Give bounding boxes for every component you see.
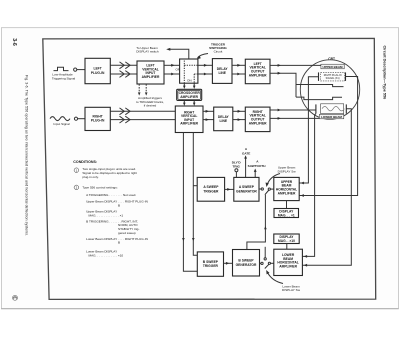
svg-text:DISPLAY Sw: DISPLAY Sw [278,169,297,173]
wire upper-left plate down to upper beam horiz amp [299,77,318,185]
wire right plug-in to right input amp (lower) [110,116,175,123]
wire B sweep generator to lower display switch [260,262,261,264]
page number 3-6 [11,38,17,46]
lower display switch left contact [261,262,263,264]
svg-text:SIGNAL (X1): SIGNAL (X1) [326,77,340,80]
block: RIGHT PLUG-IN [85,107,110,130]
svg-text:PLUG-IN: PLUG-IN [91,71,105,75]
svg-text:AMPLIFIER: AMPLIFIER [249,73,267,77]
svg-text:TRIG: TRIG [233,165,241,169]
setting upper beam display mag [86,210,123,218]
input sine waveform symbol [50,117,70,121]
svg-text:Type 556 control settings:: Type 556 control settings: [82,186,117,190]
svg-text:plug-in only.: plug-in only. [82,175,99,179]
wire A sweep generator to upper display switch contact [259,188,261,190]
wire right input amp down to B sweep trigger (line 2) [192,133,197,256]
wire right plug-in to right input amp (upper) [110,108,175,115]
upper display switch right contact [268,188,270,190]
wire input amp to trigger switch box (upper) [164,64,180,67]
svg-text:B: B [118,203,120,207]
setting upper beam display [86,200,148,208]
trigger pulse waveform symbol [54,67,69,70]
svg-text:MAG. . . ×1: MAG. . . ×1 [278,213,295,217]
svg-text:TRIGGER: TRIGGER [203,264,219,268]
block: DELAY LINE 2 [214,107,233,131]
lower display switch right contact [268,262,270,264]
label lower beam display sw [282,284,301,292]
svg-text:A TRIGGERING . . . . . . . .: A TRIGGERING . . . . . . . . Not used. [86,193,136,197]
wire left plug-in to left input amp (upper) [110,62,137,69]
svg-text:PLUG-IN: PLUG-IN [91,119,105,123]
svg-text:AMPLIFIER: AMPLIFIER [279,264,297,268]
block: CROSSOVER AMPLIFIER [177,89,202,100]
svg-text:AMPLIFIER: AMPLIFIER [249,121,267,125]
wire left plug-in to left input amp (lower) [110,71,137,78]
wire upper switch to upper beam horiz amp [270,188,273,190]
lower beam left deflection plate [315,104,317,113]
svg-text:Input Signal: Input Signal [53,122,70,126]
block: DISPLAY MAG x10 [274,234,299,244]
wire A gate up from A sweep generator [244,155,247,177]
svg-text:DISPLAY Sw: DISPLAY Sw [282,288,301,292]
svg-text:Triggering Signal: Triggering Signal [52,76,76,80]
svg-text:LOWER BEAM: LOWER BEAM [321,115,342,119]
svg-text:Circuit: Circuit [214,50,223,54]
block: A SWEEP TRIGGER [197,177,224,201]
upper beam left deflection plate [318,72,320,81]
svg-text:ON: ON [187,79,192,83]
wire B sweep trigger to B sweep generator [224,262,233,265]
wire switch box to crossover amp (right drop) [193,83,196,89]
svg-text:LINE: LINE [220,119,228,123]
svg-text:GATE: GATE [242,151,250,155]
svg-text:SAWTOOTH: SAWTOOTH [248,164,267,168]
wire input amp to trigger switch box (lower) [164,73,180,76]
terminal jack (left plug-in input) [74,68,77,71]
wire B sweep to upper switch (vertical riser) [247,195,267,250]
wire lower-left plate down to lower beam horiz amp [302,114,316,258]
label DLY'D TRIG jack [232,161,242,169]
wire upper-right plate down to upper beam horiz amp [299,77,357,197]
curved pointer upper display sw to lever [266,174,281,188]
label amplified triggers [136,96,164,107]
block: UPPER BEAM HORIZONTAL AMPLIFIER [274,177,299,200]
note 1 circled number [74,168,79,173]
curved pointer trigger switching to box [196,54,208,60]
block: LEFT VERTICAL OUTPUT AMPLIFIER [245,59,270,83]
svg-text:DISPLAY switch: DISPLAY switch [136,50,159,54]
right margin running head [383,46,387,100]
diagram border frame [43,38,376,299]
jack circle dly'd trig [235,169,238,172]
label A SAWTOOTH output [248,160,267,168]
wire delay line 1 to left output amp (upper) [232,64,245,67]
block: RIGHT VERTICAL OUTPUT AMPLIFIER [245,107,270,132]
svg-text:CONDITIONS:: CONDITIONS: [73,160,97,164]
wire stub to A sweep trigger [193,185,197,187]
svg-text:Upper Beam DISPLAY . . . . RI: Upper Beam DISPLAY . . . . RIGHT PLUG-IN [86,200,148,204]
svg-text:GENERATOR: GENERATOR [236,189,257,193]
block: LEFT PLUG-IN [85,58,110,83]
label UPPER BEAM [321,64,344,69]
CRT envelope circle [300,60,359,119]
svg-text:AMPLIFIER: AMPLIFIER [278,191,296,195]
svg-text:AMPLIFIER: AMPLIFIER [180,122,198,126]
wire delay line 1 to left output amp (lower) [232,73,245,76]
setting lower beam display [86,237,148,245]
upper beam display dashed box [321,72,345,81]
wire lower switch to lower beam horiz amp [271,262,274,264]
svg-text:Circuit Description—Type 556: Circuit Description—Type 556 [383,46,387,100]
wire right output amp to lower-left plate [270,109,316,112]
label LOWER BEAM [319,114,344,119]
wire jack to right plug-in [78,118,85,120]
svg-text:MAG. . . . . . . . . . . . . ×: MAG. . . . . . . . . . . . . ×10 [89,253,124,257]
wire delay line 2 to right output amp (lower) [233,118,246,121]
wire A sweep trigger to A sweep generator [225,188,234,191]
svg-text:UPPER BEAM: UPPER BEAM [322,65,343,69]
note 2 circled number [74,185,79,190]
terminal jack (right plug-in input) [74,117,77,120]
block: LOWER BEAM HORIZONTAL AMPLIFIER [274,249,303,275]
svg-text:if desired: if desired [144,103,157,107]
figure caption left margin [25,75,29,236]
setting B triggering [86,219,139,234]
wire jack to left plug-in [77,69,85,71]
lower beam display box with sine [321,104,345,114]
lower display switch top contact [264,258,266,260]
wire delay line 2 to right output amp (upper) [233,110,246,113]
svg-text:TRIGGER: TRIGGER [203,189,219,193]
wire right input amp down to B sweep trigger (line 1) [182,133,197,272]
wire switch box to crossover amp (left drop) [183,83,186,89]
svg-text:3-6: 3-6 [11,38,17,46]
trigger switching box [180,59,198,83]
lower display switch lever [265,264,269,268]
block: DELAY LINE 1 [212,59,232,84]
block: A SWEEP GENERATOR [234,177,259,201]
block: RIGHT VERTICAL INPUT AMPLIFIER [175,106,203,133]
svg-text:gered sweep: gered sweep [118,231,136,235]
upper beam right deflection plate [345,72,347,81]
wire right output amp to lower beam label [270,117,319,120]
wire upper amp to display mag x1 [286,201,288,209]
wire left output amp to upper beam label [270,64,321,67]
block: LEFT VERTICAL INPUT AMPLIFIER [137,61,164,84]
label upper beam display sw [278,166,297,174]
copyright mark [11,295,19,301]
svg-text:GENERATOR: GENERATOR [236,263,257,267]
wire crossover amp to right input amp (left drop) [183,100,186,106]
svg-text:MAG. . ×10: MAG. . ×10 [278,239,295,243]
wire lower-right plate down to lower beam horiz amp [302,109,351,267]
setting lower beam display mag [86,250,123,258]
note 1 text [82,167,137,179]
wire to upper beam display switch (top left) [166,48,189,59]
label low-amplitude triggering signal [52,73,76,81]
block: DISPLAY MAG x1 [274,209,299,218]
dashed amplified-trigger stub 1 [138,84,141,95]
wire switch box to delay line 1 (upper) [198,64,213,67]
upper display switch lever [265,190,269,195]
upper beam vertical plate pair (step lines) [296,85,344,100]
svg-text:Lower Beam DISPLAY . . . . RI: Lower Beam DISPLAY . . . . RIGHT PLUG-IN [86,237,148,241]
wire dly'd trig to A sweep generator [235,172,237,178]
svg-text:MAG. . . . . . . . . . . . . .: MAG. . . . . . . . . . . . . . ×1 [89,213,124,217]
label A GATE output [242,147,250,155]
curved pointer lower display sw to lever [266,270,283,284]
wire switch box to delay line 1 (lower) [198,73,213,76]
block: B SWEEP TRIGGER [197,252,223,276]
svg-text:B: B [118,241,120,245]
svg-text:Fig. 3-6. The Type 556 operati: Fig. 3-6. The Type 556 operating as two … [25,75,29,236]
wire left output amp lower to upper vert plates [270,72,296,97]
svg-text:AMPLIFIER: AMPLIFIER [142,75,160,79]
wire right input amp to delay line 2 (upper) [203,110,214,113]
wire A sawtooth up from A sweep generator [254,169,257,178]
upper display switch left contact [261,188,263,190]
svg-text:AMPLIFIER: AMPLIFIER [180,95,198,99]
svg-text:Ⓒ: Ⓒ [11,295,19,301]
label trigger switching circuit [209,42,227,53]
block: B SWEEP GENERATOR [233,250,260,277]
wire crossover amp to right input amp (right drop) [193,100,196,106]
wire top contact riser [264,247,266,258]
wire right input amp to delay line 2 (lower) [203,118,214,121]
svg-text:LINE: LINE [218,71,226,75]
dashed amplified-trigger stub 2 [145,84,148,95]
lower beam right deflection plate [345,104,347,113]
label to upper beam display switch [136,46,159,54]
wire display mag x10 to lower amp [286,244,288,250]
